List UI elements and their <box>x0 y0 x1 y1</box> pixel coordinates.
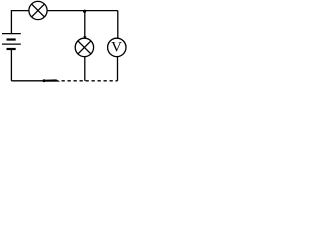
svg-text:V: V <box>111 40 122 56</box>
